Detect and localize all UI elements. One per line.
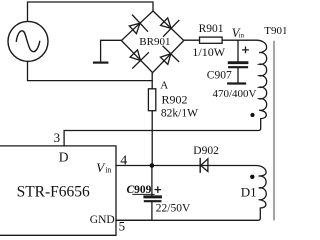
svg-text:5: 5 — [119, 218, 126, 233]
svg-text:C909: C909 — [127, 184, 152, 196]
svg-text:in: in — [105, 165, 111, 174]
svg-text:D: D — [59, 150, 69, 165]
svg-text:T901: T901 — [264, 25, 286, 37]
svg-text:82k/1W: 82k/1W — [161, 108, 198, 120]
svg-text:BR901: BR901 — [139, 36, 170, 48]
svg-text:22/50V: 22/50V — [156, 203, 191, 215]
svg-text:470/400V: 470/400V — [213, 88, 257, 100]
svg-text:in: in — [239, 31, 245, 39]
svg-text:C907: C907 — [207, 69, 232, 81]
svg-text:D1: D1 — [241, 185, 257, 200]
svg-text:GND: GND — [90, 214, 115, 226]
svg-text:1/10W: 1/10W — [192, 45, 225, 59]
svg-text:4: 4 — [120, 154, 127, 169]
svg-text:A: A — [160, 79, 168, 91]
svg-text:STR-F6656: STR-F6656 — [17, 183, 90, 200]
svg-text:D902: D902 — [193, 145, 219, 157]
svg-text:R901: R901 — [199, 23, 224, 35]
svg-text:3: 3 — [54, 130, 61, 145]
svg-text:R902: R902 — [162, 93, 188, 107]
